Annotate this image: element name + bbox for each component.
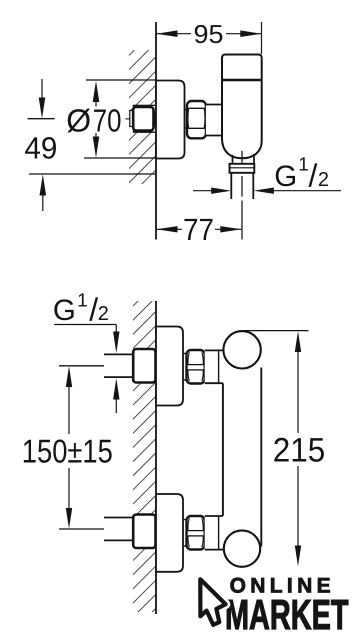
- union square lower (front view): [133, 515, 155, 549]
- escutcheon flange upper (front view): [156, 327, 183, 406]
- G 1/2 lower arrow (front view): [115, 398, 117, 413]
- svg-text:2: 2: [98, 303, 109, 325]
- wall face line (top view): [155, 22, 157, 240]
- connection boss lower (front view): [205, 516, 224, 550]
- bottom ball (front view): [224, 530, 260, 566]
- svg-text:G: G: [53, 294, 76, 327]
- outlet centerline: [241, 151, 243, 163]
- escutcheon flange lower (front view): [156, 494, 183, 572]
- neck upper (front view): [183, 353, 187, 355]
- hex nut (top view): [187, 101, 206, 138]
- dimension 95 extension line right: [261, 22, 263, 54]
- svg-text:2: 2: [318, 169, 329, 191]
- dimension 95 arrows: [157, 30, 178, 37]
- dimension D70 extension lines: [86, 79, 157, 81]
- outlet pipe (top view): [230, 173, 232, 199]
- union-to-wall arc (top view): [154, 110, 155, 128]
- dimension 77 line: [157, 228, 183, 230]
- svg-text:77: 77: [183, 212, 214, 247]
- svg-text:Ø: Ø: [66, 102, 91, 138]
- svg-text:215: 215: [273, 431, 326, 469]
- body tube walls (front view): [222, 383, 224, 516]
- escutcheon flange (top view): [156, 81, 185, 159]
- valve body (top view): [222, 80, 262, 158]
- dimension 215 extension line: [242, 330, 308, 332]
- dimension 49 upper arrow: [41, 79, 43, 99]
- dimension 95 line: [157, 33, 192, 35]
- inlet boss (top view): [206, 105, 222, 136]
- head joint line (top view): [222, 79, 262, 81]
- hex nut lower (front view): [187, 516, 205, 550]
- push button head (top view): [222, 55, 262, 81]
- logo mouse cursor: [200, 579, 225, 625]
- inlet centerline tick (top view): [126, 118, 132, 120]
- neck between flange and nut (top view): [185, 109, 188, 111]
- wall hatching (front view): [133, 301, 156, 612]
- dimension 215 arrows and line: [295, 331, 301, 352]
- neck lower (front view): [183, 519, 187, 521]
- wall face line (front view): [155, 301, 157, 614]
- svg-text:MARKET: MARKET: [225, 591, 349, 638]
- dimension 150+-15 extension lines: [59, 365, 104, 367]
- dimension 49 reference tick upper: [28, 118, 55, 120]
- svg-text:70: 70: [93, 102, 122, 138]
- svg-text:150±15: 150±15: [22, 433, 113, 470]
- dimension D70 arrows and line: [93, 81, 100, 102]
- dimension 49 lower arrow: [42, 194, 44, 211]
- union nut square (top view): [133, 107, 153, 131]
- dimension 150+-15 arrows and line: [66, 366, 72, 387]
- supply stub (top view): [130, 111, 134, 127]
- svg-text:/: /: [309, 157, 318, 193]
- supply pipe stub lower (front view): [104, 517, 133, 519]
- svg-text:95: 95: [194, 19, 224, 49]
- hex nut upper (front view): [187, 350, 205, 384]
- G 1/2 outlet arrows (top view): [193, 190, 212, 192]
- outlet collar (top view): [230, 164, 255, 173]
- union square upper (front view): [133, 349, 155, 383]
- connection boss upper (front view): [205, 350, 224, 383]
- svg-text:49: 49: [24, 131, 57, 166]
- svg-text:G: G: [274, 160, 297, 193]
- outlet neck (top view): [232, 155, 234, 164]
- svg-text:1: 1: [77, 291, 88, 312]
- dimension 49 reference line lower: [29, 173, 156, 175]
- top ball (front view): [223, 331, 260, 368]
- wall socket (top view): [134, 105, 157, 132]
- supply pipe stub upper (front view): [104, 353, 133, 355]
- svg-text:1: 1: [298, 155, 309, 176]
- G 1/2 leader line (front view): [54, 324, 116, 326]
- dimension 77 arrows: [157, 226, 178, 232]
- wall hatching (top view): [129, 50, 156, 184]
